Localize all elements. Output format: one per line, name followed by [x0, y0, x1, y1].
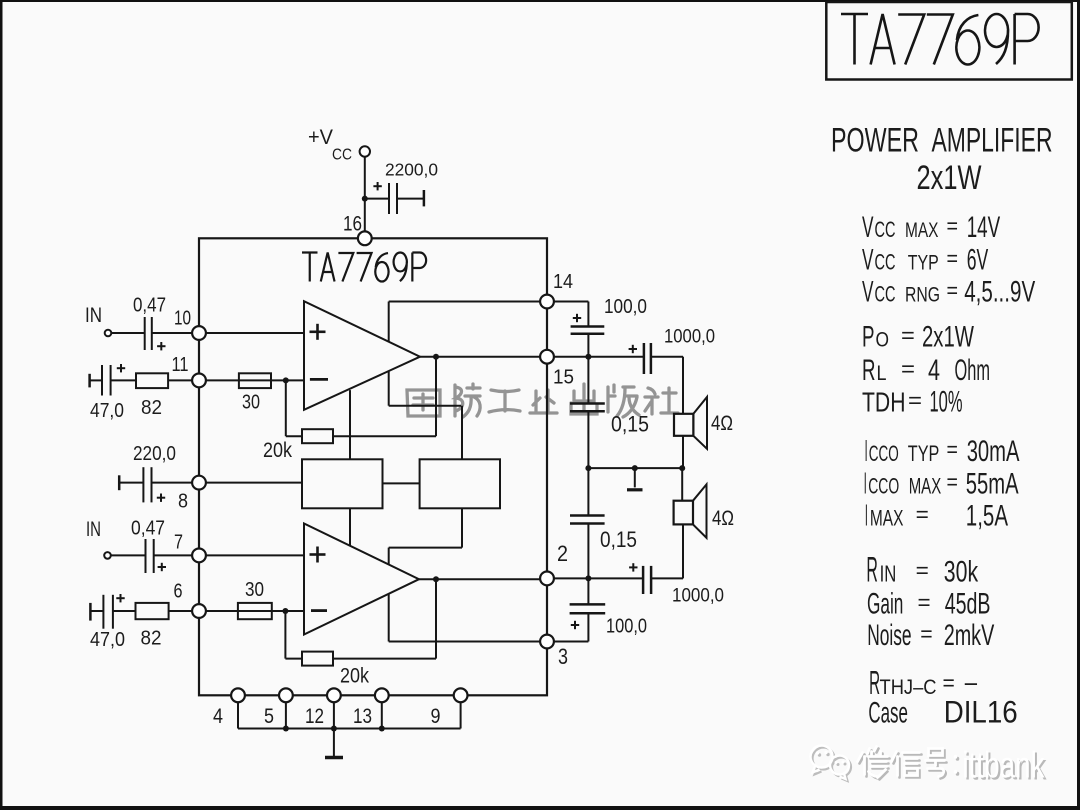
svg-text:=: = [908, 388, 922, 413]
svg-text:14: 14 [553, 271, 573, 293]
svg-text:I: I [865, 498, 868, 533]
svg-text:4,5...9V: 4,5...9V [964, 276, 1035, 309]
svg-text:=: = [918, 590, 931, 615]
svg-text:16: 16 [343, 213, 362, 236]
svg-text:1000,0: 1000,0 [672, 586, 724, 607]
svg-text:10: 10 [174, 308, 191, 330]
svg-text:V: V [862, 211, 874, 244]
svg-text:2mkV: 2mkV [944, 619, 995, 652]
svg-text:R: R [862, 354, 876, 387]
svg-text:100,0: 100,0 [604, 296, 647, 318]
svg-text:TDH: TDH [862, 387, 906, 418]
svg-text:V: V [862, 276, 874, 309]
svg-text:30: 30 [245, 579, 264, 601]
svg-text:11: 11 [172, 354, 189, 376]
svg-text:15: 15 [553, 367, 574, 389]
svg-text:=: = [901, 357, 915, 382]
svg-text:82: 82 [141, 397, 162, 419]
svg-text:0,15: 0,15 [600, 527, 637, 552]
svg-text:5: 5 [264, 705, 274, 728]
svg-text:8: 8 [178, 491, 188, 513]
svg-text:2x1W: 2x1W [922, 321, 974, 354]
svg-text:0,15: 0,15 [611, 412, 649, 437]
svg-text:Gain: Gain [867, 588, 903, 621]
svg-text:=: = [916, 558, 929, 583]
svg-text:47,0: 47,0 [90, 400, 124, 422]
svg-text:=: = [920, 622, 932, 647]
svg-text:1000,0: 1000,0 [664, 327, 715, 348]
svg-text:O: O [876, 328, 890, 352]
svg-text:0,47: 0,47 [131, 518, 165, 540]
svg-text:2x1W: 2x1W [917, 159, 982, 197]
svg-text:=: = [916, 502, 929, 527]
svg-text:=: = [943, 671, 955, 696]
svg-text:47,0: 47,0 [90, 629, 125, 651]
svg-text:CC: CC [875, 282, 896, 307]
svg-text:4Ω: 4Ω [711, 412, 733, 435]
svg-text:POWER: POWER [831, 122, 919, 160]
svg-text:IN: IN [85, 304, 102, 327]
svg-text:CC: CC [875, 217, 896, 242]
svg-text:CCO: CCO [868, 473, 899, 498]
svg-text:6V: 6V [967, 244, 989, 277]
svg-text:=: = [947, 278, 959, 303]
svg-text:6: 6 [174, 581, 183, 603]
svg-text:TYP: TYP [908, 251, 939, 275]
svg-text:MAX: MAX [909, 473, 942, 498]
svg-text:3: 3 [558, 644, 568, 669]
svg-text:13: 13 [353, 705, 372, 728]
svg-text:Ohm: Ohm [955, 354, 991, 387]
svg-text:I: I [865, 433, 868, 468]
svg-text:30k: 30k [944, 556, 978, 589]
svg-text:30mA: 30mA [967, 435, 1020, 468]
svg-text:12: 12 [305, 705, 324, 728]
svg-text:=: = [947, 246, 959, 271]
svg-text:=: = [947, 470, 958, 495]
svg-text:RNG: RNG [905, 283, 940, 307]
svg-text:R: R [866, 551, 878, 590]
svg-text:14V: 14V [967, 211, 1001, 244]
svg-text:2200,0: 2200,0 [385, 160, 438, 180]
svg-text:20k: 20k [340, 665, 369, 688]
svg-text:=: = [947, 437, 958, 462]
svg-text:1,5A: 1,5A [966, 500, 1008, 533]
svg-text:4: 4 [928, 354, 940, 387]
svg-text:20k: 20k [263, 439, 292, 462]
svg-text:IN: IN [880, 561, 897, 587]
svg-text:=: = [947, 214, 959, 239]
svg-text:2: 2 [557, 541, 568, 566]
svg-text:P: P [862, 321, 875, 354]
svg-text:CC: CC [332, 147, 352, 164]
svg-text:MAX: MAX [870, 506, 904, 531]
svg-text:L: L [877, 361, 887, 385]
svg-text:82: 82 [141, 628, 162, 650]
svg-text:7: 7 [174, 532, 183, 554]
svg-text:+V: +V [308, 126, 333, 149]
svg-text:0,47: 0,47 [133, 295, 166, 317]
svg-text:100,0: 100,0 [606, 616, 647, 638]
svg-text:MAX: MAX [905, 218, 939, 242]
svg-text:220,0: 220,0 [133, 443, 176, 465]
svg-text:10%: 10% [930, 386, 963, 419]
svg-text:Case: Case [868, 696, 908, 729]
svg-text:4Ω: 4Ω [712, 507, 734, 530]
svg-text:IN: IN [86, 518, 101, 541]
svg-text:4: 4 [213, 705, 223, 728]
svg-text:9: 9 [431, 705, 441, 728]
svg-text:=: = [901, 323, 915, 348]
svg-text:DIL16: DIL16 [944, 693, 1018, 729]
svg-text:V: V [862, 244, 874, 277]
svg-text:45dB: 45dB [945, 588, 991, 621]
svg-text:–: – [965, 667, 978, 697]
svg-text:I: I [864, 465, 867, 500]
svg-text:Noise: Noise [867, 619, 911, 652]
svg-text:AMPLIFIER: AMPLIFIER [932, 122, 1053, 160]
svg-text:55mA: 55mA [966, 467, 1019, 500]
svg-text:CC: CC [875, 250, 896, 275]
svg-text:CCO: CCO [869, 441, 899, 466]
svg-text:TYP: TYP [908, 441, 940, 466]
svg-text:30: 30 [242, 392, 260, 414]
svg-text:ittbank: ittbank [963, 745, 1045, 786]
